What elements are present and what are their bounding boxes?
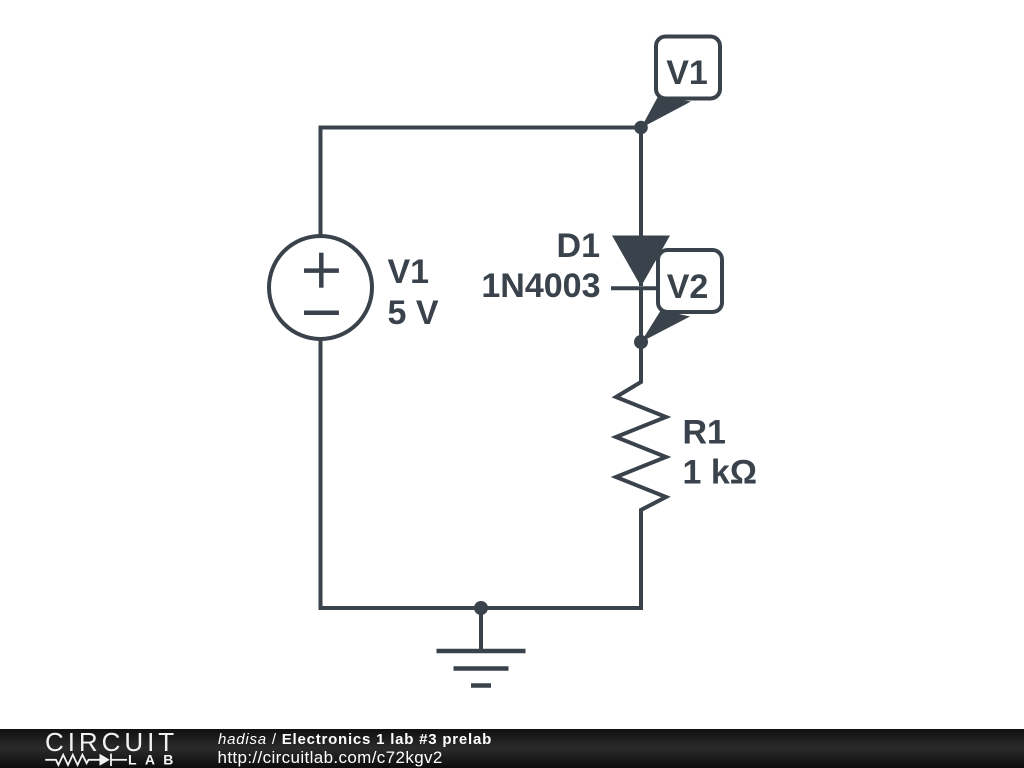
svg-text:V1: V1	[666, 54, 708, 92]
svg-text:V2: V2	[667, 268, 709, 306]
svg-text:1N4003: 1N4003	[481, 267, 600, 305]
svg-text:5 V: 5 V	[388, 294, 439, 332]
svg-text:LAB: LAB	[128, 752, 182, 768]
svg-text:hadisa / Electronics 1 lab #3: hadisa / Electronics 1 lab #3 prelab	[218, 731, 492, 748]
svg-text:V1: V1	[388, 253, 430, 291]
svg-text:http://circuitlab.com/c72kgv2: http://circuitlab.com/c72kgv2	[218, 748, 443, 767]
svg-text:1 kΩ: 1 kΩ	[683, 454, 758, 492]
svg-text:D1: D1	[557, 227, 600, 265]
svg-text:R1: R1	[683, 413, 726, 451]
